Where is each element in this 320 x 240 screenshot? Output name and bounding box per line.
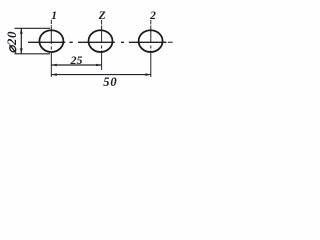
svg-text:⌀20: ⌀20 [4, 31, 19, 54]
svg-text:1: 1 [51, 10, 57, 22]
svg-text:Z: Z [98, 10, 106, 22]
svg-text:50: 50 [103, 75, 117, 89]
svg-text:25: 25 [70, 53, 83, 67]
svg-text:2: 2 [149, 10, 156, 22]
